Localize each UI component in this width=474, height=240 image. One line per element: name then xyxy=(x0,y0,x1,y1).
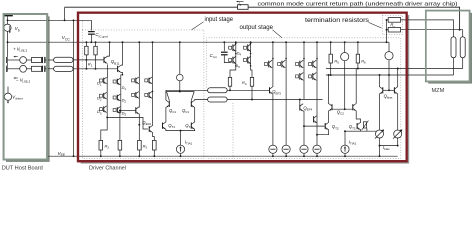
label VEE xyxy=(58,151,66,157)
wire bank2 col4 down xyxy=(316,80,318,135)
wire Qbias base tie xyxy=(383,89,395,91)
transistor QC2 left xyxy=(329,104,332,111)
MZM box shadow xyxy=(428,13,472,84)
junction col4 mid xyxy=(152,91,154,93)
junction QT2R emitter line xyxy=(379,130,381,132)
wire bank2 col3 rail xyxy=(303,41,305,67)
wire QT2L emitter xyxy=(317,130,329,135)
wire chainA 2-3 xyxy=(106,99,108,107)
junction R2 row2 xyxy=(95,68,97,70)
label D1 xyxy=(97,81,102,87)
junction QT2R tail xyxy=(316,134,318,136)
wire Ibias tie xyxy=(380,145,398,147)
caption output stage xyxy=(240,25,283,38)
junction line1 bias drop xyxy=(397,68,399,70)
current source ITIA1 xyxy=(176,131,184,157)
junction R2 rail xyxy=(95,41,97,43)
wire QB12 collector xyxy=(121,42,123,65)
label D3 chainB xyxy=(122,110,127,116)
variable current source 1 xyxy=(375,129,384,145)
capacitor row1 xyxy=(42,57,54,63)
transistor QT1 right xyxy=(191,122,194,129)
wire QEF3 collector xyxy=(272,86,274,88)
junction src2 VEE xyxy=(285,155,287,157)
wire QC1L emitter to QT1L xyxy=(165,107,167,122)
junction R6 line1 xyxy=(357,68,359,70)
wire bank1 col1 xyxy=(235,41,237,66)
junction R5 line2 xyxy=(330,74,332,76)
diode D3 (chain B) xyxy=(113,107,121,114)
label ITIA2 xyxy=(349,139,357,145)
wire QC1L collector to TL1 xyxy=(166,90,208,100)
wire Vb column to source rows xyxy=(7,42,9,65)
wire chainA 1-2 xyxy=(106,84,108,93)
diode transistor col3 row2 xyxy=(132,92,140,99)
transistor bank2 r2c4 xyxy=(309,68,317,81)
variable resistor element xyxy=(362,121,369,132)
resistor row1 xyxy=(27,58,42,63)
junction line2 bias drop xyxy=(379,74,381,76)
transistor QC1 left xyxy=(166,100,169,107)
resistor R3 bottom xyxy=(138,140,142,156)
termination resistors dashed box xyxy=(382,15,402,34)
label QT2 left xyxy=(332,124,339,130)
label QC1 right xyxy=(182,108,189,114)
resistor row2 xyxy=(27,66,42,71)
wire row2 to T2 base xyxy=(73,68,117,70)
transmission line TL1 xyxy=(208,88,228,93)
junction Ibias left xyxy=(379,145,381,147)
resistor Rs upper xyxy=(387,18,401,23)
wire gnd to VEE (outside driver) xyxy=(73,20,75,156)
wire electrode2 bottom xyxy=(462,58,464,69)
label D4 xyxy=(237,51,242,57)
junction Qbias base xyxy=(388,89,390,91)
resistor R4b xyxy=(250,77,253,99)
junction src4 VEE xyxy=(316,155,318,157)
junction return path to Rs lower wire xyxy=(459,29,461,31)
transmission line row2 xyxy=(54,66,74,71)
junction R1 row1 xyxy=(85,59,87,61)
junction R3b VEE xyxy=(138,155,140,157)
DUT host board border overlay xyxy=(4,14,48,160)
wire TL1 out xyxy=(227,89,269,91)
VEE rail xyxy=(47,155,398,157)
dashed stub above input stage box xyxy=(81,21,83,30)
label Qbias xyxy=(384,94,393,100)
label D5 xyxy=(235,63,240,69)
label D2 chainB xyxy=(122,98,127,104)
output line 2 (to MZM) xyxy=(326,74,454,76)
diode transistor col4 row2 xyxy=(145,92,153,99)
junction degb VEE xyxy=(119,155,121,157)
resistor R2 xyxy=(94,42,97,69)
label ITIA1 xyxy=(185,140,193,146)
MZM box xyxy=(426,11,470,82)
junction R2b VEE xyxy=(100,155,102,157)
junction term rail xyxy=(386,41,388,43)
transistor Qbias left xyxy=(379,75,382,130)
junction Ctin rail xyxy=(223,41,225,43)
junction CICgnd to VCC rail xyxy=(90,41,92,43)
voltage source Vdriver xyxy=(4,87,23,104)
wire bank2 col4 rail xyxy=(316,41,318,67)
diode D4 col2 xyxy=(244,44,251,52)
wire Rs lower to MZM xyxy=(401,30,463,37)
svg-text:−: − xyxy=(16,78,19,83)
wire QC1R collector to TL2 xyxy=(195,99,208,102)
wire bank2 col3 down xyxy=(303,80,305,99)
junction ITIA1 VEE xyxy=(180,155,182,157)
junction QC2L line2 xyxy=(328,74,330,76)
current source A top xyxy=(341,41,349,109)
junction R4a TL1 xyxy=(229,89,231,91)
diode transistor col4 row1 xyxy=(145,77,153,84)
arrow at +Vi,se,1 xyxy=(13,56,17,58)
wire col4 mid xyxy=(152,83,154,92)
transistor QC1 right xyxy=(191,100,194,107)
label MZM xyxy=(432,88,445,94)
wire QC2R emitter xyxy=(356,111,360,123)
junction src3 VEE xyxy=(303,155,305,157)
transistor Qbias right xyxy=(394,69,397,130)
label R6 xyxy=(361,59,366,65)
junction degd VEE xyxy=(153,155,155,157)
caption: common mode current return path xyxy=(258,1,458,7)
junction QC1 rail xyxy=(179,41,181,43)
label D3 xyxy=(97,109,102,115)
resistor R4a xyxy=(228,77,231,90)
transistor on col4 drop xyxy=(314,116,317,123)
transistor bank2 r1c4 xyxy=(309,60,317,68)
transistor QC2 right xyxy=(353,104,356,111)
battery plate of Vb xyxy=(4,14,13,16)
wire electrode1 bottom xyxy=(453,58,455,75)
junction col3 rail xyxy=(138,41,140,43)
wire Ctin from rail xyxy=(223,42,225,51)
QC2 base tie xyxy=(332,108,353,110)
diode D3 (chain A) xyxy=(100,106,108,113)
diode D5 col1 xyxy=(229,56,236,64)
wire QEF4 to QT2L base xyxy=(304,125,325,127)
diode D5 col2 xyxy=(244,56,251,64)
transistor QEF2b xyxy=(149,126,152,133)
wire Ibias to VEE xyxy=(379,146,381,157)
common mode return path wire xyxy=(65,7,460,30)
current source ITIA2 xyxy=(341,131,349,156)
label QT1 left xyxy=(168,123,175,129)
voltage source Vb xyxy=(4,16,20,33)
wire rail corner down xyxy=(388,42,390,51)
junction Ibias VEE xyxy=(379,155,381,157)
wire chainB 1-2 xyxy=(120,85,122,95)
junction base tie xyxy=(179,91,181,93)
wire QB11 collector xyxy=(107,42,109,56)
node gnd wire (top) xyxy=(8,19,92,21)
MZM border overlay xyxy=(426,11,470,82)
label Ibias xyxy=(383,145,390,151)
current source bank2 c2 xyxy=(282,145,290,156)
junction QB12 rail xyxy=(122,41,124,43)
output stage dashed box xyxy=(206,38,400,159)
wire chainB 2-3 xyxy=(120,101,122,108)
label R2 xyxy=(105,143,110,149)
junction gnd wire to VEE drop xyxy=(73,19,75,21)
label QC2 xyxy=(337,109,344,115)
wire QB12 emitter down xyxy=(121,73,123,79)
current source bank2 c3 xyxy=(300,145,308,156)
wire bank1 col1 to R4a xyxy=(230,66,236,78)
wire QEF3 emitter down xyxy=(272,94,274,145)
label D1 chainB xyxy=(122,85,127,91)
wire col4 tail to source4 xyxy=(316,135,318,145)
capacitor Ct,in xyxy=(210,52,228,59)
wire col4 from rail xyxy=(152,41,154,77)
output line 1 (to MZM) xyxy=(326,68,463,70)
driver channel border overlay xyxy=(78,13,407,162)
label R1 xyxy=(88,61,93,67)
wire bank1 col2 to R4b xyxy=(251,66,252,78)
MZM electrode 2 xyxy=(460,37,465,58)
wire QEF4 base up xyxy=(299,100,301,105)
label DUT Host Board xyxy=(2,166,43,172)
source circle row2 xyxy=(8,65,27,72)
transistor QEF4 xyxy=(300,104,303,111)
svg-text:DUT Host Board: DUT Host Board xyxy=(2,166,43,171)
diode D1 (chain B) xyxy=(113,78,121,85)
junction line2 circleB xyxy=(388,74,390,76)
caption input stage xyxy=(192,17,234,30)
capacitor C_IC,gnd xyxy=(88,31,108,42)
junction QB11 rail xyxy=(109,41,111,43)
svg-text:common mode current return pat: common mode current return path (underne… xyxy=(258,1,458,7)
junction R1 rail xyxy=(85,41,87,43)
junction QB12 emitter node xyxy=(122,74,124,76)
wire bank2 col2 rail xyxy=(285,41,287,67)
base tie trapezoid xyxy=(167,92,195,101)
junction chainA bottom xyxy=(106,116,108,118)
wire bank1 col2 xyxy=(250,41,252,66)
wire bias to tie xyxy=(179,81,181,92)
wire Ctin down xyxy=(224,55,231,62)
ferrite bead on return path xyxy=(238,5,249,10)
wire bank2 col1 rail xyxy=(272,41,274,67)
current source B xyxy=(385,52,393,75)
svg-text:output stage: output stage xyxy=(240,25,274,31)
resistor R6 xyxy=(356,41,359,68)
wire line2p left end xyxy=(328,75,330,104)
label R3 xyxy=(143,143,148,149)
current source bank2 c4 xyxy=(313,145,321,156)
transmission line TL2 xyxy=(208,97,228,102)
wire chainB bottom to T1 base xyxy=(121,109,136,111)
DUT host board box xyxy=(4,14,48,160)
label QEF3 xyxy=(272,89,281,95)
label QEF4 xyxy=(303,106,312,112)
diode D2 (chain B) xyxy=(113,94,121,101)
current source bank2 c1 xyxy=(269,145,277,156)
diode D1 (chain A) xyxy=(100,77,108,84)
transistor QB11 xyxy=(104,56,110,63)
transistor QT1 left xyxy=(163,122,166,129)
resistor R5 xyxy=(329,41,332,75)
resistor degeneration b xyxy=(118,140,122,156)
wire R2b up xyxy=(119,109,121,140)
wire chainA bottom xyxy=(106,112,108,117)
label QT2 right xyxy=(349,124,356,130)
label QT1 right xyxy=(185,123,192,129)
transistor bank2 r1c2 xyxy=(278,60,286,68)
wire T1 emitter xyxy=(138,114,140,140)
transistor bank2 r1c3 xyxy=(296,60,304,68)
transistor QB12 xyxy=(118,65,121,72)
wire bank2 col1 to QEF3 xyxy=(272,68,274,87)
junction term r2 xyxy=(386,29,388,31)
svg-text:termination resistors: termination resistors xyxy=(305,18,369,24)
source circle row1 xyxy=(8,57,27,64)
wire termination feed xyxy=(386,20,388,42)
wire QEF4 emitter xyxy=(302,111,305,126)
variable current source 2 xyxy=(393,129,402,145)
transmission line row1 xyxy=(54,57,74,62)
junction T1 emitter xyxy=(138,124,140,126)
capacitor row2 xyxy=(42,66,54,72)
wire QC2R collector xyxy=(355,69,357,104)
resistor R2 bottom xyxy=(99,140,103,156)
junction VEE drop bottom xyxy=(73,155,75,157)
wire bank2 col2 down xyxy=(285,68,287,146)
wire QC1 bias feed xyxy=(179,42,181,74)
label R5 xyxy=(334,59,339,65)
input stage dashed box xyxy=(82,30,204,158)
label Rs xyxy=(390,22,395,28)
wire QT2R emitter xyxy=(345,129,380,131)
wire QC2L emitter xyxy=(328,111,330,123)
resistor R1 xyxy=(85,42,88,69)
wire chainA drop to R2b xyxy=(101,117,107,140)
driver channel box xyxy=(78,13,407,162)
label Driver Channel xyxy=(89,166,126,172)
DUT host board box shadow xyxy=(6,16,50,162)
wire col3 lower xyxy=(138,98,140,108)
junction Ibias right xyxy=(397,145,399,147)
junction ITIA2 node xyxy=(344,130,346,132)
wire Rs upper to MZM xyxy=(401,20,454,37)
wire col4 lower xyxy=(152,98,154,126)
junction term r1 xyxy=(386,19,388,21)
wire QC1R emitter to QT1R xyxy=(194,107,196,122)
transistor QEF3 xyxy=(270,87,273,94)
svg-text:Driver Channel: Driver Channel xyxy=(89,166,126,171)
wire Vb to VCC rail xyxy=(7,31,9,42)
junction src1 VEE xyxy=(272,155,274,157)
label -Vi,se,1 xyxy=(16,78,30,84)
diode D2 (chain A) xyxy=(100,92,108,99)
wire col3 from rail xyxy=(138,42,140,77)
label +Vi,se,1 xyxy=(13,46,27,52)
wire col3 mid xyxy=(138,83,140,92)
wire circleB to Qbias bases xyxy=(388,75,390,90)
MZM electrode 1 xyxy=(451,37,456,58)
label QC1 left xyxy=(169,108,176,114)
label QEF2 xyxy=(142,120,151,126)
caption termination resistors xyxy=(305,18,382,28)
resistor Rs lower xyxy=(387,27,401,32)
wire node down to source3 xyxy=(303,126,305,145)
current label i_g with arrow xyxy=(236,0,243,6)
transistor QT2 left xyxy=(325,122,328,129)
bias source circle xyxy=(177,74,184,81)
wire row1 to QB11 base xyxy=(73,59,104,61)
junction Vb gnd tap xyxy=(7,19,9,21)
resistor degeneration d xyxy=(153,140,157,156)
junction R4b TL2 xyxy=(251,99,253,101)
transistor QT2 right xyxy=(357,122,360,129)
label QB11 xyxy=(111,59,120,65)
arrow at -Vi,se,1 xyxy=(13,77,17,79)
junction QEF4 TL2 xyxy=(299,99,301,101)
junction tail node xyxy=(180,130,182,132)
transistor bank2 r2c3 xyxy=(296,68,304,81)
wire return-path drop to gnd wire xyxy=(64,7,66,20)
diode transistor col3 row1 xyxy=(132,77,140,84)
label VCC xyxy=(62,35,71,41)
junction QEF4 emitter node xyxy=(303,125,305,127)
wire gnd into driver xyxy=(90,20,92,30)
driver channel box shadow xyxy=(81,15,410,164)
wire QEF2b emitter xyxy=(153,132,155,140)
transistor bank2 r1c1 xyxy=(265,60,273,68)
junction ITIA2 VEE xyxy=(344,155,346,157)
junction on gnd wire at return-path drop xyxy=(64,19,66,21)
wire chainA to QEF2b base xyxy=(107,117,148,129)
junction Vb to VCC rail xyxy=(7,41,9,43)
terminal bar row2 xyxy=(6,66,7,72)
transistor T1 col3 xyxy=(136,107,139,114)
wire QT1 tails xyxy=(166,129,195,130)
wire QB11 emitter to chain A xyxy=(106,64,108,77)
junction R1 row2 xyxy=(85,68,87,70)
diode D4 col1 xyxy=(229,44,236,52)
label R4 xyxy=(242,80,247,86)
label D2 xyxy=(97,96,102,102)
svg-text:input stage: input stage xyxy=(205,17,234,23)
svg-text:MZM: MZM xyxy=(432,88,445,94)
VCC rail xyxy=(8,41,390,43)
terminal bar row1 xyxy=(6,57,7,63)
wire TL2 out xyxy=(227,99,322,101)
